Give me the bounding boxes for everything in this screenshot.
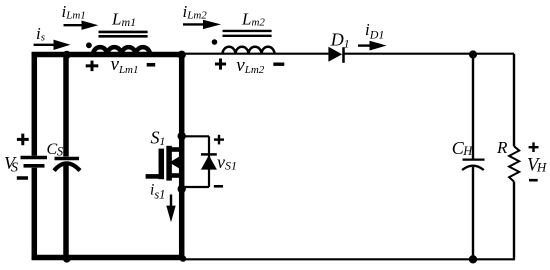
svg-text:iLm2: iLm2 [183, 2, 208, 22]
svg-text:S1: S1 [151, 127, 166, 148]
svg-text:R: R [496, 138, 508, 157]
svg-text:iD1: iD1 [365, 20, 384, 42]
svg-text:VH: VH [527, 155, 547, 175]
svg-text:vLm2: vLm2 [236, 55, 264, 76]
svg-text:vS1: vS1 [217, 152, 237, 173]
svg-text:is1: is1 [150, 182, 165, 202]
svg-text:vLm1: vLm1 [111, 54, 139, 76]
svg-text:VS: VS [4, 153, 18, 176]
svg-text:CS: CS [47, 141, 64, 159]
svg-text:is: is [36, 24, 45, 43]
svg-text:Lm2: Lm2 [241, 9, 265, 28]
svg-text:iLm1: iLm1 [62, 2, 86, 22]
svg-text:CH: CH [452, 138, 474, 158]
svg-text:D1: D1 [330, 29, 350, 50]
svg-text:Lm1: Lm1 [111, 9, 136, 29]
